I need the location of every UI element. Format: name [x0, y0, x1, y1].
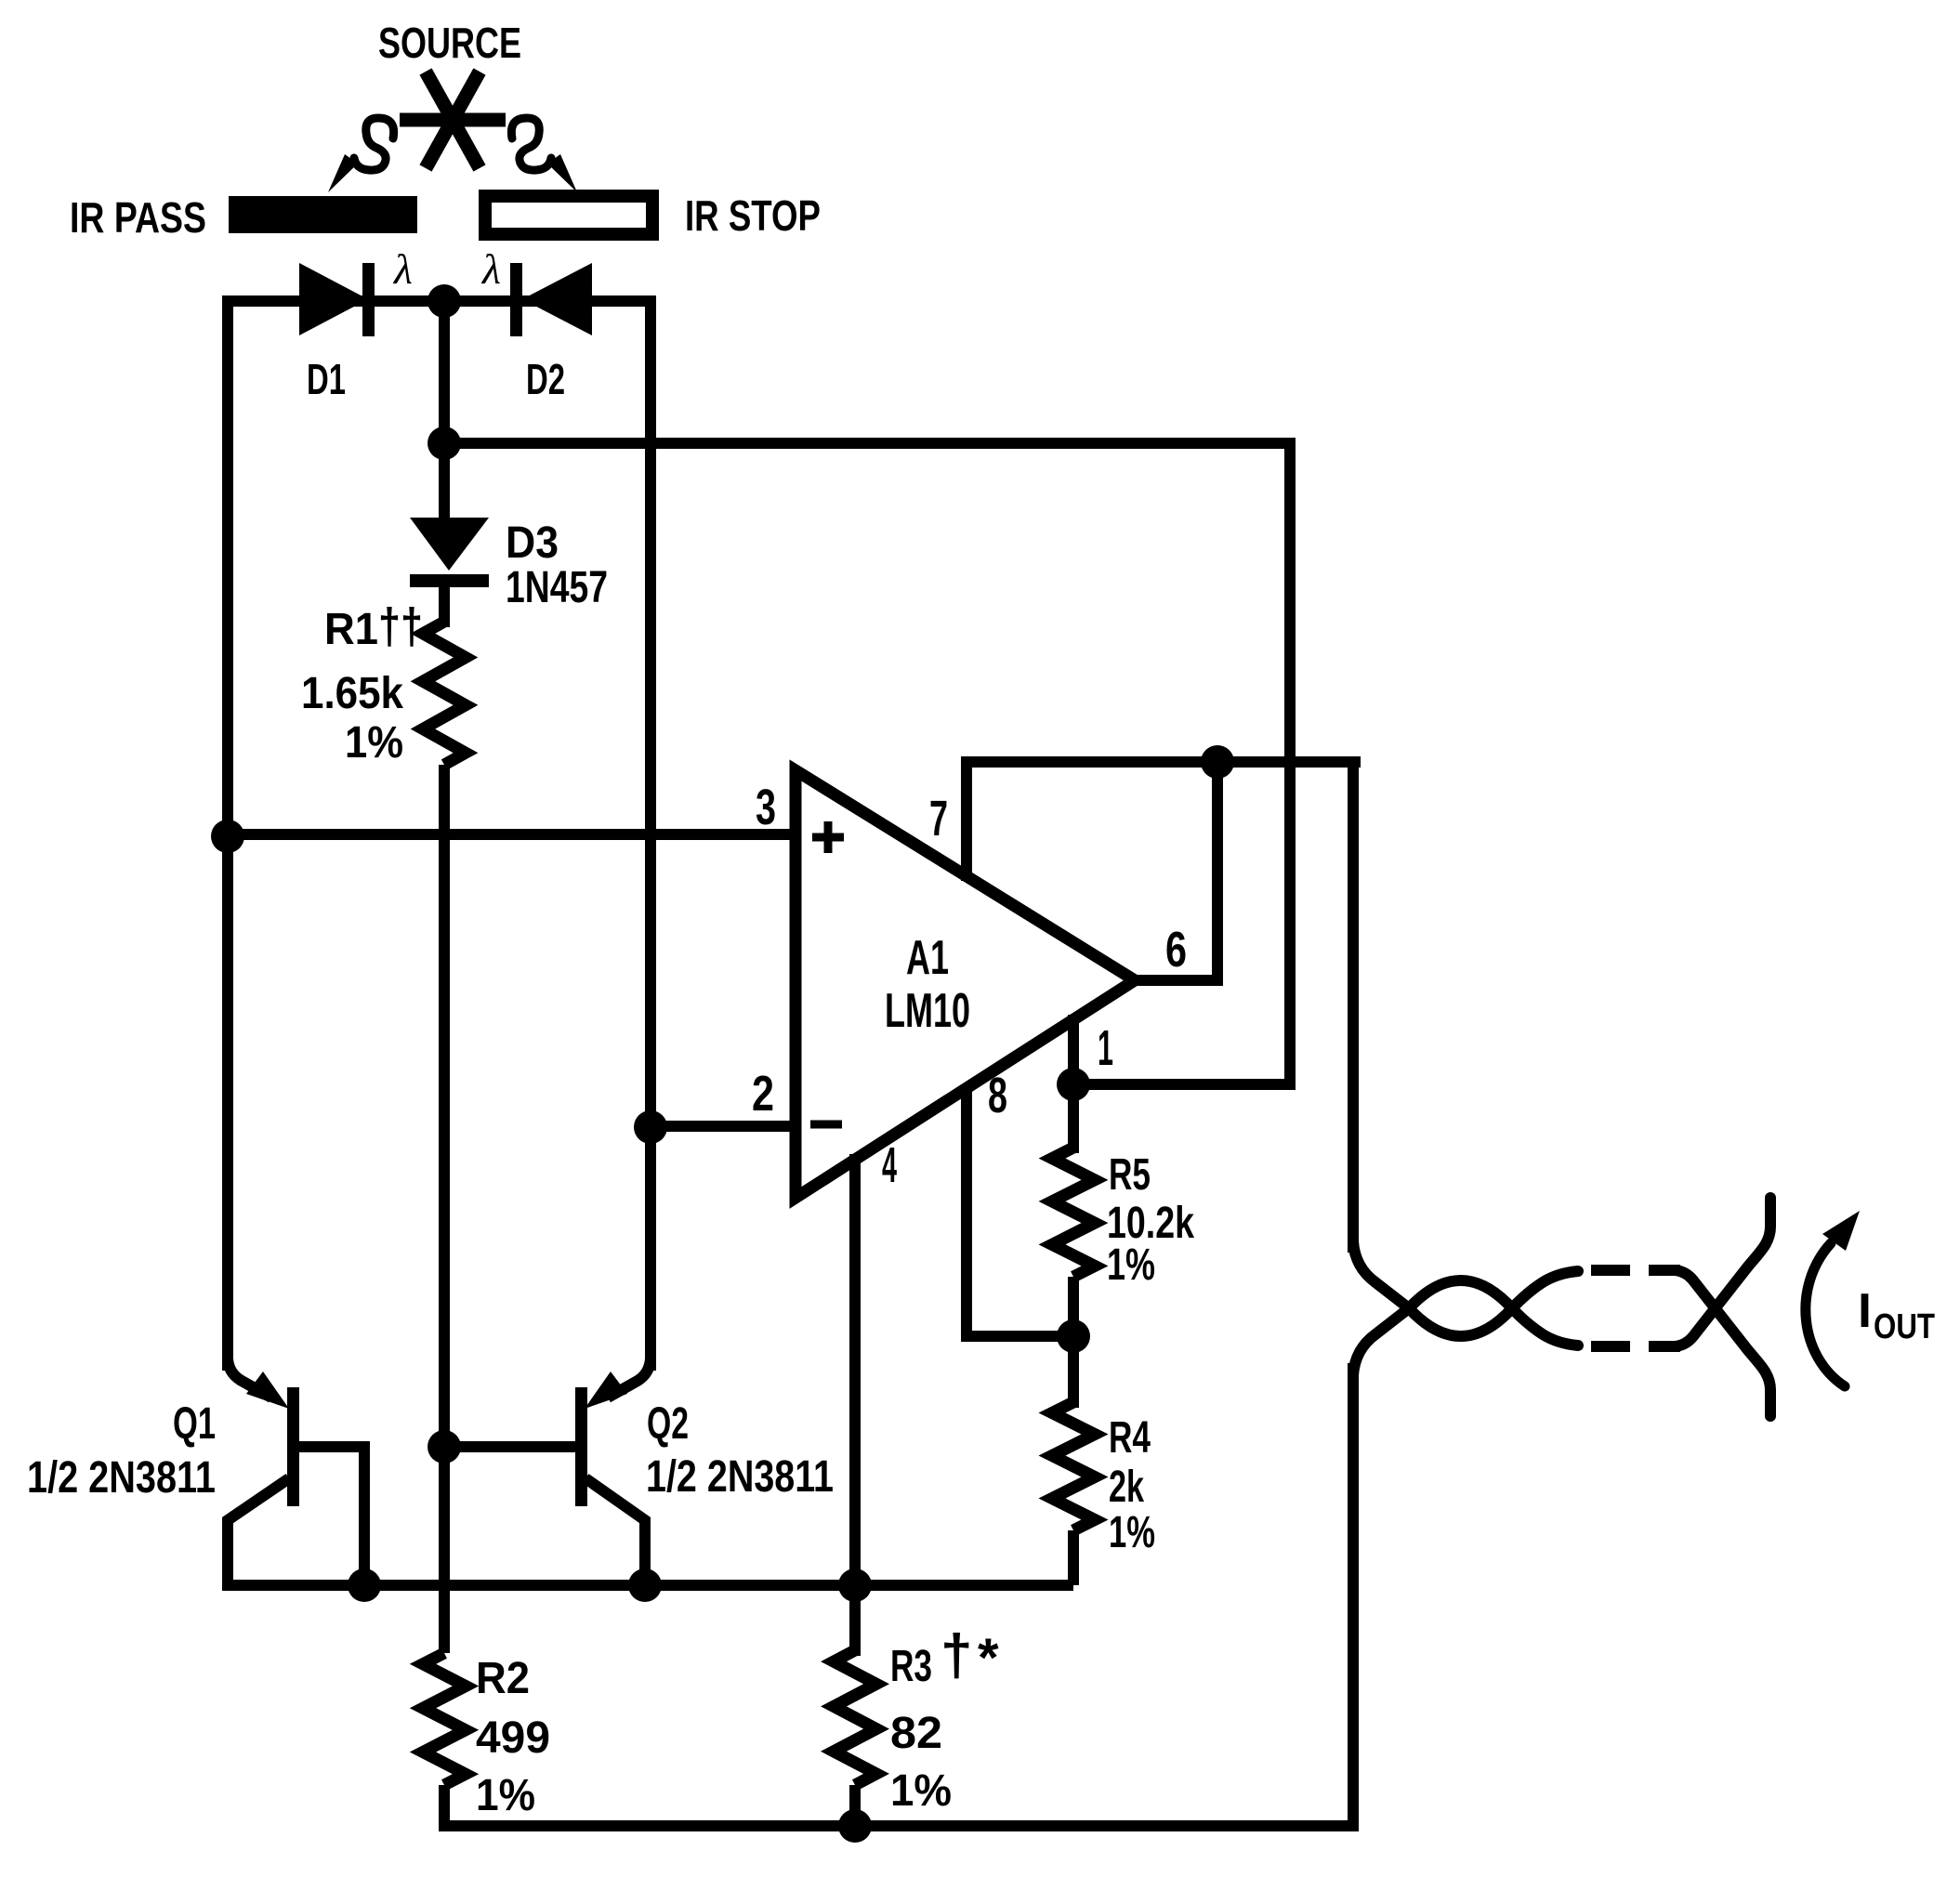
- svg-text:499: 499: [476, 1713, 550, 1763]
- wire D1-D2 row: [228, 295, 651, 307]
- wire bottom right vertical: [1348, 1363, 1359, 1831]
- resistor R5: [1052, 1148, 1095, 1277]
- node pin2 tee: [634, 1110, 667, 1144]
- svg-text:D2: D2: [526, 355, 565, 403]
- svg-text:R4: R4: [1109, 1413, 1151, 1463]
- svg-text:IR STOP: IR STOP: [685, 191, 821, 240]
- label SOURCE: [378, 19, 521, 67]
- svg-text:4: 4: [882, 1137, 897, 1193]
- svg-text:λ: λ: [480, 245, 501, 293]
- svg-text:D1: D1: [307, 355, 346, 403]
- lambda label left: [392, 245, 413, 293]
- wire R4 bottom lead: [1068, 1530, 1079, 1585]
- twisted pair dashes upper: [1591, 1265, 1680, 1276]
- label pin 7: [929, 791, 948, 847]
- Iout arrow: [1806, 1211, 1860, 1386]
- label R1 1pct: [345, 718, 403, 768]
- label R2 1pct: [476, 1771, 535, 1820]
- label Q2: [647, 1399, 689, 1449]
- svg-text:Q2: Q2: [647, 1399, 689, 1449]
- svg-text:6: 6: [1165, 922, 1187, 978]
- svg-text:2k: 2k: [1109, 1463, 1144, 1512]
- svg-text:1%: 1%: [1109, 1508, 1155, 1557]
- label Q2 type: [646, 1452, 834, 1502]
- label 10.2k: [1107, 1199, 1194, 1248]
- svg-text:Q1: Q1: [173, 1399, 216, 1449]
- label 82: [890, 1709, 942, 1758]
- wire left vertical: [222, 295, 233, 1371]
- svg-text:††: ††: [378, 598, 423, 654]
- svg-text:R2: R2: [476, 1654, 530, 1703]
- lambda label right: [480, 245, 501, 293]
- svg-text:R5: R5: [1109, 1150, 1151, 1200]
- wire feedback top: [444, 443, 1290, 1090]
- svg-text:D3: D3: [506, 518, 559, 568]
- wire output vertical: [1348, 762, 1359, 1253]
- svg-text:A1: A1: [906, 931, 949, 985]
- svg-text:1%: 1%: [890, 1766, 952, 1816]
- svg-text:82: 82: [890, 1709, 942, 1758]
- svg-text:IR PASS: IR PASS: [70, 193, 206, 242]
- wire junction drop: [439, 301, 450, 449]
- svg-text:R3: R3: [890, 1642, 932, 1691]
- svg-text:8: 8: [988, 1068, 1007, 1123]
- label LM10: [885, 984, 970, 1038]
- svg-text:LM10: LM10: [885, 984, 970, 1038]
- wire pin3 input: [228, 829, 796, 840]
- node Q1 base rail: [348, 1569, 381, 1602]
- wire pin8 lead: [967, 1085, 1073, 1336]
- wire R2 bottom lead: [439, 1785, 450, 1831]
- svg-text:I: I: [1858, 1284, 1872, 1338]
- label R5: [1109, 1150, 1151, 1200]
- label 499: [476, 1713, 550, 1763]
- wire R5 to R4: [1068, 1277, 1079, 1408]
- label Q1 type: [27, 1453, 216, 1503]
- node pin4 rail: [838, 1569, 872, 1602]
- node pin3 left tee: [211, 820, 244, 853]
- label D2: [526, 355, 565, 403]
- light ray arrow to IR PASS: [328, 118, 394, 192]
- wire pin2 input: [651, 1121, 796, 1132]
- label pin 1: [1098, 1020, 1113, 1076]
- resistor R4: [1052, 1402, 1095, 1530]
- op-amp A1: [796, 770, 1135, 1198]
- node out junction: [1201, 745, 1234, 779]
- photodiode D2: [510, 263, 592, 336]
- label pin 6: [1165, 922, 1187, 978]
- label R3 1pct: [890, 1766, 952, 1816]
- svg-text:1.65k: 1.65k: [301, 669, 403, 718]
- svg-text:R1: R1: [324, 605, 378, 654]
- svg-text:†: †: [941, 1623, 972, 1687]
- diode D3: [410, 518, 489, 627]
- svg-text:7: 7: [929, 791, 948, 847]
- IR STOP filter: [485, 196, 652, 234]
- light ray arrow to IR STOP: [511, 118, 577, 192]
- svg-text:1%: 1%: [345, 718, 403, 768]
- svg-text:OUT: OUT: [1874, 1307, 1935, 1346]
- svg-text:3: 3: [756, 780, 776, 835]
- svg-text:SOURCE: SOURCE: [378, 19, 521, 67]
- label R2: [476, 1654, 530, 1703]
- label R4 1pct: [1109, 1508, 1155, 1557]
- IR PASS filter: [229, 196, 417, 233]
- node Q2 base tee: [428, 1430, 461, 1464]
- label IR PASS: [70, 193, 206, 242]
- label 2k: [1109, 1463, 1144, 1512]
- resistor R3: [834, 1650, 876, 1831]
- label R1 dagger dagger: [324, 598, 423, 654]
- label pin 8: [988, 1068, 1007, 1123]
- label 1.65k: [301, 669, 403, 718]
- label A1: [906, 931, 949, 985]
- node pin1 tee: [1057, 1068, 1090, 1101]
- wire pin1 horizontal: [1073, 1079, 1296, 1090]
- node Q2 collector rail: [628, 1569, 662, 1602]
- wire pin1 to R5: [1068, 1084, 1079, 1153]
- svg-text:*: *: [978, 1628, 999, 1688]
- label R4: [1109, 1413, 1151, 1463]
- svg-text:1/2 2N3811: 1/2 2N3811: [646, 1452, 834, 1502]
- twisted pair dashes lower: [1591, 1341, 1680, 1352]
- svg-text:2: 2: [752, 1066, 774, 1122]
- wire pin4 lead: [849, 1154, 861, 1656]
- node R5 R4 junction: [1057, 1319, 1090, 1353]
- svg-text:1/2 2N3811: 1/2 2N3811: [27, 1453, 216, 1503]
- wire pin6 output: [1135, 756, 1217, 980]
- photodiode D1: [299, 263, 375, 336]
- label R5 1pct: [1107, 1240, 1155, 1290]
- node D1-D2 junction: [428, 284, 461, 318]
- wire center chain upper: [439, 443, 450, 523]
- wire pin1 lead: [1068, 1015, 1079, 1084]
- label pin 2: [752, 1066, 774, 1122]
- lamp source symbol: [400, 72, 506, 168]
- label 1N457: [506, 563, 608, 612]
- wire bottom: [439, 1820, 1359, 1831]
- wire pin7: [967, 762, 1361, 881]
- wire D2 chain vertical: [645, 301, 651, 1371]
- resistor R2: [423, 1653, 466, 1785]
- twisted pair wire A: [1353, 1241, 1770, 1416]
- label Iout: [1858, 1284, 1935, 1346]
- label pin 4: [882, 1137, 897, 1193]
- svg-text:1: 1: [1098, 1020, 1113, 1076]
- wire bottom rail: [228, 1580, 1073, 1591]
- label D3: [506, 518, 559, 568]
- transistor Q2: [444, 1329, 651, 1591]
- transistor Q1: [228, 1329, 364, 1591]
- label IR STOP: [685, 191, 821, 240]
- label pin 3: [756, 780, 776, 835]
- node feedback tee: [428, 427, 461, 460]
- twisted pair wire B: [1353, 1198, 1770, 1375]
- label R3 dagger star: [890, 1623, 999, 1691]
- label Q1: [173, 1399, 216, 1449]
- svg-text:1%: 1%: [476, 1771, 535, 1820]
- resistor R1: [423, 622, 466, 765]
- svg-text:1%: 1%: [1107, 1240, 1155, 1290]
- svg-text:λ: λ: [392, 245, 413, 293]
- svg-text:1N457: 1N457: [506, 563, 608, 612]
- node R3 bottom: [838, 1809, 872, 1843]
- label D1: [307, 355, 346, 403]
- wire center chain mid: [439, 765, 450, 1653]
